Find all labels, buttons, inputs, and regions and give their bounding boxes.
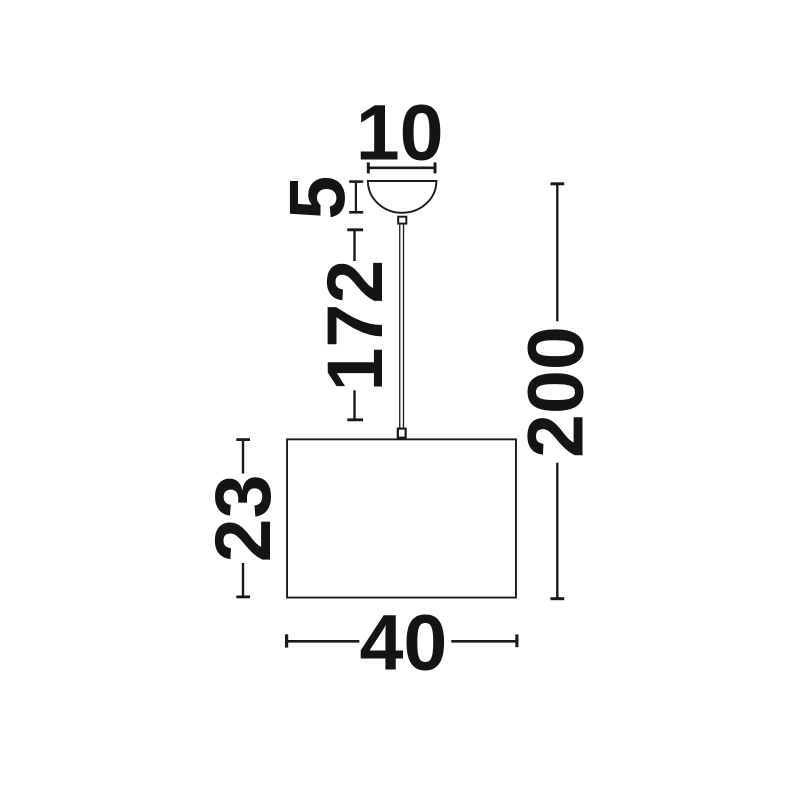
svg-text:40: 40 <box>360 597 448 686</box>
cord (suspension wire) <box>400 225 404 428</box>
svg-text:200: 200 <box>510 326 599 458</box>
cord grip (top square) <box>398 217 406 224</box>
dimension line for 40 (shade width) <box>287 634 517 647</box>
svg-text:172: 172 <box>310 260 399 392</box>
svg-text:5: 5 <box>272 176 361 220</box>
dimension line for 23 (shade height) <box>236 440 250 597</box>
svg-text:23: 23 <box>198 474 287 562</box>
dimension line for 5 (canopy height) <box>349 182 363 213</box>
dimension line for 10 (top width) <box>368 162 435 173</box>
lamp shade (rectangle) <box>287 439 516 597</box>
dimension line for 200 (overall height) <box>551 184 565 599</box>
cord grip (bottom square) <box>398 429 406 438</box>
dimension line for 172 (cord length) <box>347 230 363 420</box>
canopy (ceiling cup) <box>368 181 437 213</box>
